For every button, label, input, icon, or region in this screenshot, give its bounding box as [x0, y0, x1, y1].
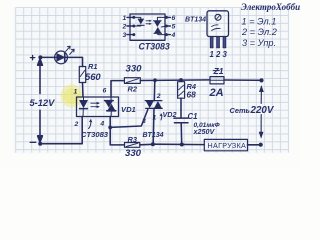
wire fuse to mains node	[224, 79, 262, 81]
svg-text:1: 1	[153, 115, 157, 122]
svg-text:Сеть: Сеть	[230, 106, 250, 115]
plus sign	[30, 57, 34, 59]
wire R3 to MT1 node	[140, 143, 153, 146]
svg-text:R1: R1	[88, 62, 97, 71]
right pin stubs	[165, 16, 170, 18]
fuse Z1	[210, 77, 224, 84]
TO220 package BT134	[207, 11, 229, 37]
svg-text:CT3083: CT3083	[139, 42, 170, 52]
svg-text:5: 5	[172, 24, 176, 31]
svg-text:1: 1	[123, 15, 127, 22]
svg-text:x250V: x250V	[193, 127, 216, 136]
svg-text:6: 6	[103, 88, 107, 95]
svg-text:6: 6	[172, 15, 176, 22]
svg-text:1 2 3: 1 2 3	[210, 50, 228, 59]
node R4 tap	[179, 78, 183, 82]
svg-text:VD2: VD2	[163, 110, 177, 119]
node triac MT1	[151, 142, 155, 146]
U1 coupling arrows	[91, 102, 100, 108]
node under C1	[180, 143, 184, 147]
load box	[204, 139, 247, 150]
node rail right end	[259, 78, 263, 82]
yellow highlighter blob	[61, 85, 83, 108]
svg-text:68: 68	[187, 89, 197, 99]
resistor R1	[79, 67, 85, 83]
top rail	[140, 79, 210, 82]
svg-text:VD1: VD1	[121, 105, 136, 114]
VD2 gate wire from pin 4	[109, 117, 111, 128]
triac VD2	[153, 80, 156, 100]
U1 internal LED	[83, 97, 85, 100]
resistor R3	[125, 143, 140, 148]
resistor R4	[180, 80, 182, 82]
paper background	[0, 0, 300, 168]
node after R2	[153, 78, 157, 82]
VD2 pin1 tiny arrow	[160, 114, 163, 120]
svg-text:560: 560	[85, 71, 101, 82]
wire pin4 node down to R3	[110, 127, 124, 144]
svg-text:1: 1	[74, 89, 78, 96]
LED lamp	[55, 51, 68, 64]
svg-text:330: 330	[125, 148, 142, 159]
wire pin2 to bottom rail	[40, 117, 82, 144]
node bottom right	[259, 143, 263, 147]
svg-text:2: 2	[74, 121, 79, 128]
minus sign	[30, 141, 36, 143]
wire top left	[40, 56, 55, 58]
svg-text:BT134: BT134	[143, 132, 164, 139]
svg-text:3 = Упр.: 3 = Упр.	[242, 38, 276, 48]
svg-text:2: 2	[122, 24, 127, 31]
svg-text:3: 3	[142, 118, 146, 125]
wire R4 to C1	[180, 98, 182, 118]
optocoupler U1 box	[77, 97, 119, 117]
svg-text:C1: C1	[188, 112, 198, 121]
svg-text:2А: 2А	[209, 87, 224, 99]
supply rail arrow 5-12V	[39, 59, 41, 94]
mains voltage arrow	[260, 87, 262, 104]
capacitor C1	[174, 117, 188, 119]
U1 internal triac	[110, 97, 112, 101]
wire LED to R1	[67, 57, 82, 66]
svg-text:1 = Эл.1: 1 = Эл.1	[242, 16, 277, 26]
svg-text:2: 2	[156, 93, 161, 100]
svg-text:НАГРУЗКА: НАГРУЗКА	[208, 141, 247, 150]
svg-text:330: 330	[126, 64, 143, 75]
svg-text:R2: R2	[128, 85, 138, 94]
DIP coupling arrows	[146, 20, 152, 25]
LED emission arrows	[66, 46, 75, 54]
svg-text:R3: R3	[128, 135, 138, 144]
pin 3 squiggle	[89, 120, 91, 129]
DIP internal triac	[157, 17, 166, 20]
pin 6 wire up to rail	[111, 81, 124, 97]
svg-text:4: 4	[171, 32, 176, 39]
svg-text:BT134: BT134	[185, 17, 206, 24]
svg-text:2 = Эл.2: 2 = Эл.2	[241, 27, 277, 37]
node top-left	[38, 55, 42, 59]
left pin stubs	[127, 16, 134, 18]
svg-text:220V: 220V	[250, 105, 275, 116]
svg-text:CT3083: CT3083	[81, 130, 109, 139]
wire R1 to pin1	[82, 83, 85, 98]
Z1 strike	[213, 70, 220, 72]
svg-text:3: 3	[123, 32, 127, 39]
DIP internal LED	[134, 17, 141, 18]
node bottom-left	[38, 142, 42, 146]
svg-text:5-12V: 5-12V	[30, 98, 56, 108]
svg-text:4: 4	[99, 121, 104, 128]
TO220 legs	[210, 37, 226, 48]
svg-text:ЭлектроХобби: ЭлектроХобби	[241, 2, 300, 12]
bottom rail to load	[153, 143, 204, 145]
DIP6 package CT3083	[130, 14, 165, 40]
resistor R2	[124, 78, 140, 84]
